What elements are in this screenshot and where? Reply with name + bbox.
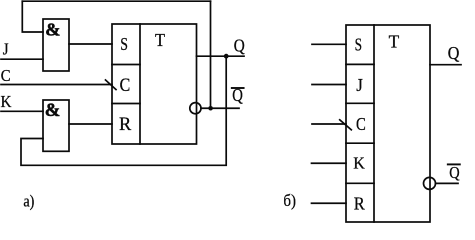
AND gate D2 box (43, 100, 69, 151)
wire: D1 output to S input (69, 43, 112, 45)
flip-flop U2 box (346, 25, 430, 222)
wire: U2 Qbar output (436, 182, 459, 184)
junction dot Qbar node (left) (208, 106, 213, 111)
overline of Qbar label (left) (232, 87, 244, 89)
svg-text:C: C (120, 76, 131, 96)
svg-text:&: & (45, 20, 60, 40)
svg-text:Q: Q (448, 43, 460, 63)
wire: U2 R input (312, 202, 347, 204)
svg-text:S: S (355, 35, 362, 55)
svg-text:S: S (120, 34, 128, 54)
svg-text:R: R (119, 115, 132, 135)
inversion bubble U2 (424, 177, 436, 189)
wire: Qbar feedback up to top rail (210, 1, 212, 108)
junction dot Q node (left) (224, 54, 229, 59)
wire: Q output (197, 55, 245, 57)
wire: U2 Q output (430, 64, 461, 66)
svg-text:K: K (353, 154, 365, 173)
svg-text:K: K (1, 92, 12, 111)
wire: Qbar output (201, 107, 239, 109)
svg-text:Q: Q (234, 36, 245, 56)
wire: left feedback drop to AND1 input 1 (22, 1, 43, 32)
U1 inner divider (139, 24, 141, 144)
U2 cell divider S/J (346, 63, 374, 65)
svg-text:R: R (354, 194, 366, 214)
dynamic input marker C (right FF) (340, 120, 352, 130)
wire: U2 C input (312, 123, 346, 125)
svg-text:&: & (45, 100, 61, 121)
inversion bubble U1 (190, 103, 201, 114)
svg-text:J: J (356, 75, 363, 95)
U1 cell divider S/C (112, 64, 140, 66)
wire: top feedback rail from Qbar node (22, 0, 210, 2)
wire: U2 J input (312, 84, 346, 86)
svg-text:C: C (356, 114, 366, 134)
overline of Qbar label (right) (448, 163, 460, 165)
svg-text:Q: Q (449, 163, 460, 182)
U2 cell divider K/R (346, 182, 374, 184)
svg-text:T: T (389, 32, 400, 52)
svg-text:J: J (3, 40, 9, 59)
AND gate D1 box (43, 19, 69, 71)
wire: U2 S input (312, 43, 346, 45)
wire: C input (1, 84, 112, 86)
wire: J input (1, 58, 43, 60)
flip-flop U1 box (112, 24, 197, 144)
U2 cell divider J/C (346, 102, 374, 104)
U2 inner divider (373, 25, 375, 222)
U2 cell divider C/K (346, 142, 374, 144)
wire: K input (1, 110, 43, 112)
svg-text:T: T (155, 30, 165, 50)
svg-text:C: C (1, 66, 11, 85)
svg-text:Q: Q (232, 85, 243, 105)
svg-text:б): б) (283, 191, 296, 210)
wire: Q feedback to AND2 input 2 (21, 57, 226, 165)
dynamic input marker C (left FF) (106, 80, 117, 90)
wire: U2 K input (312, 162, 347, 164)
U1 cell divider C/R (112, 103, 140, 105)
wire: D2 output to R input (69, 123, 112, 125)
svg-text:а): а) (23, 192, 34, 211)
